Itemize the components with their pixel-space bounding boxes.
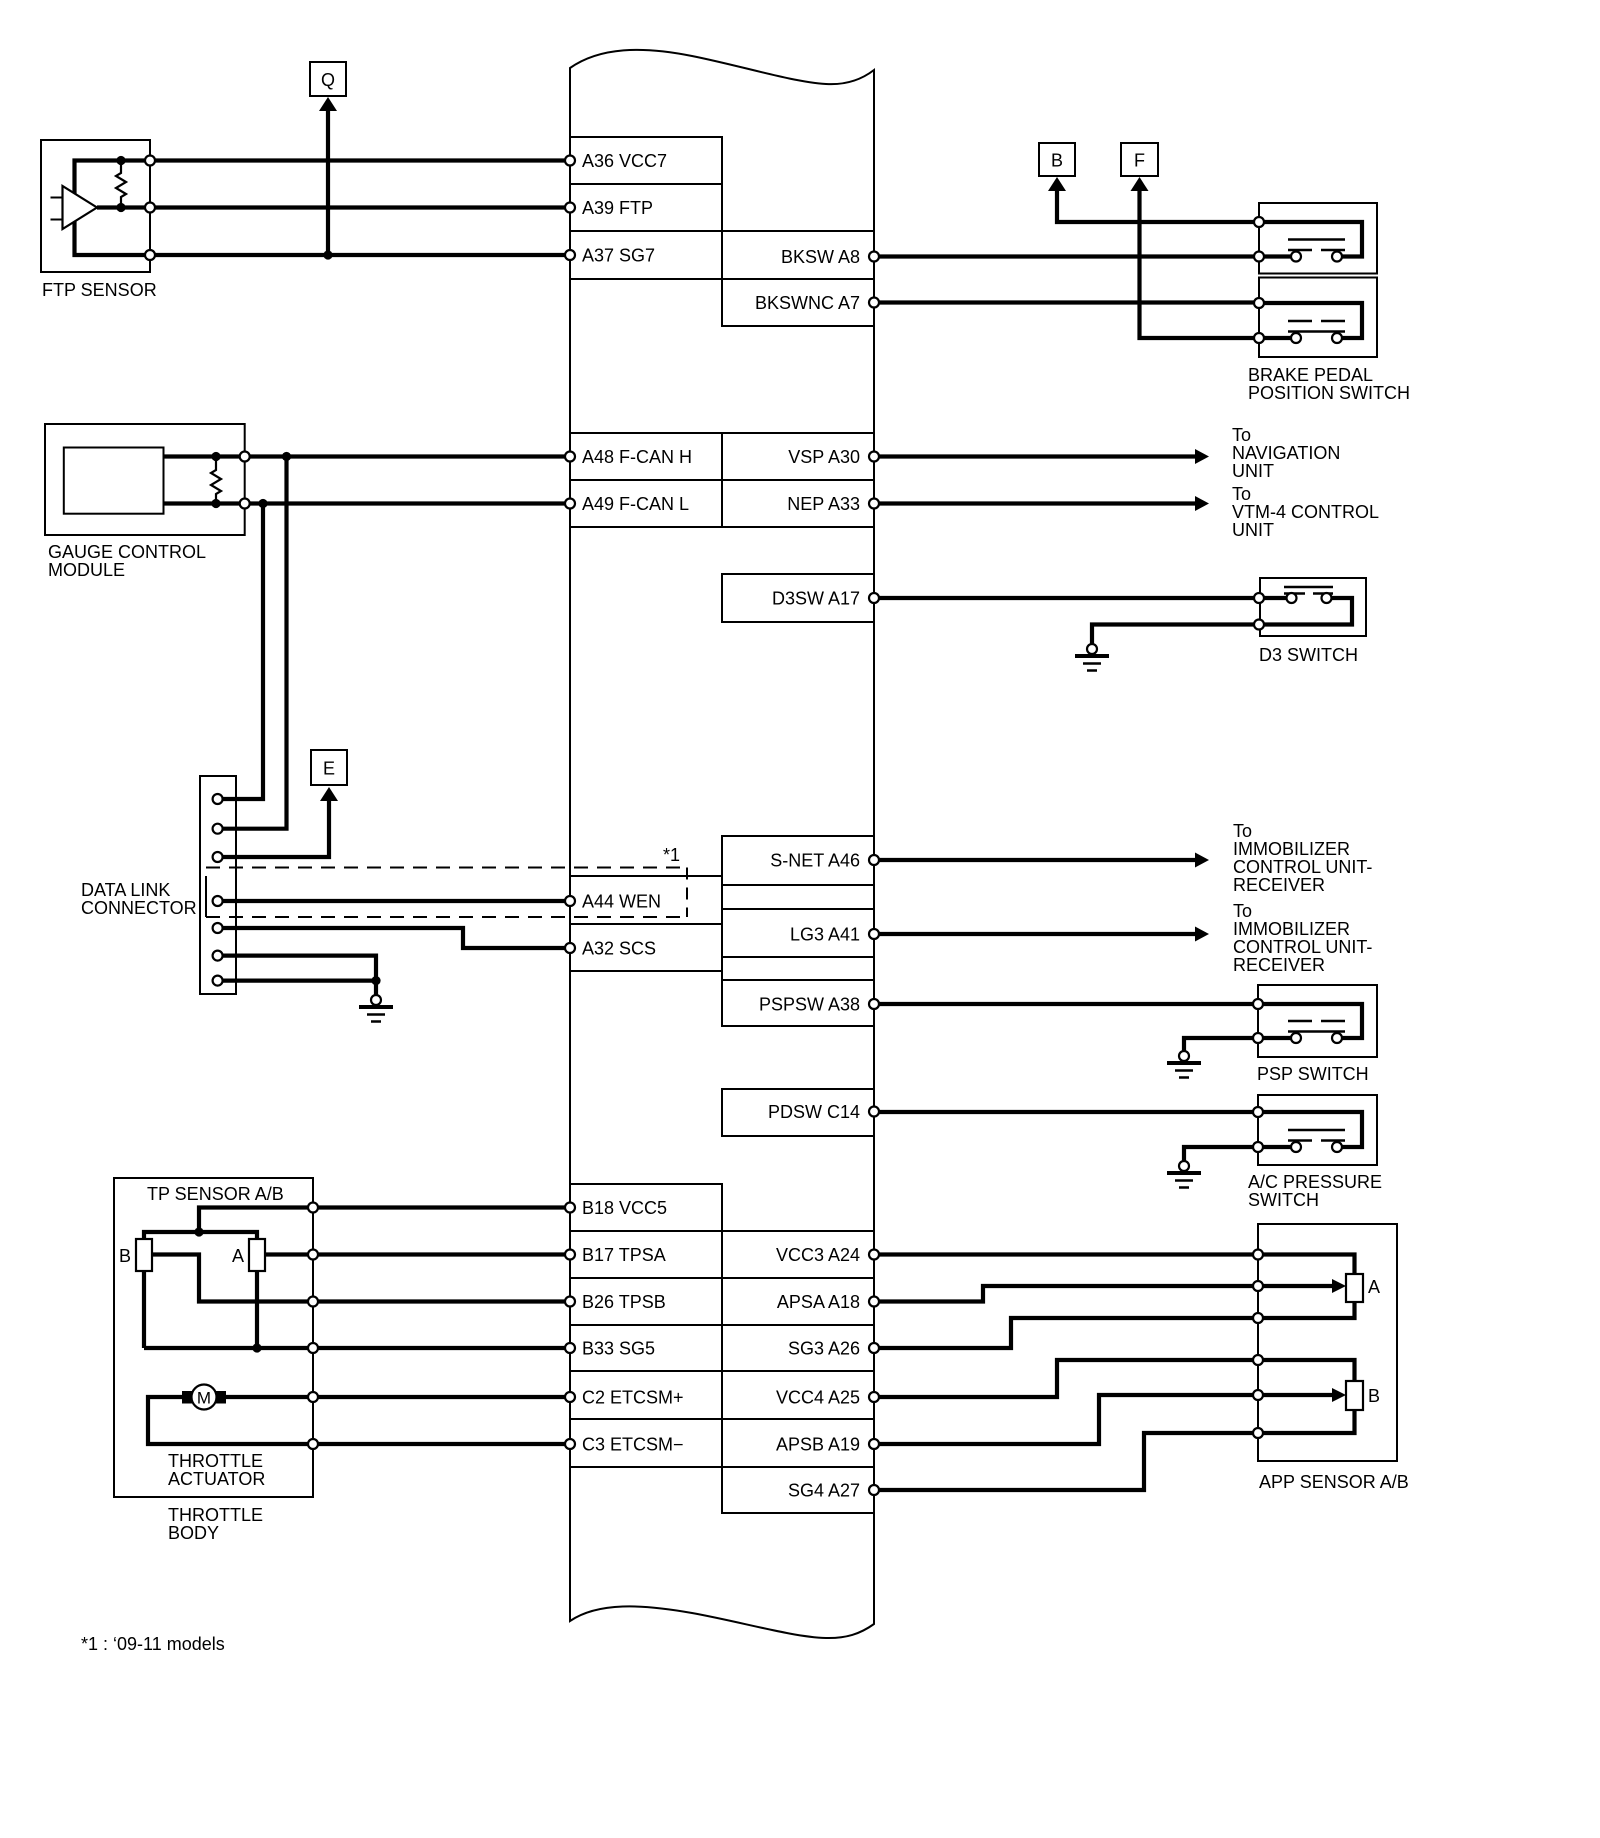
arrowhead to immobilizer control unit-receiver (S-NET) — [1195, 853, 1209, 868]
svg-text:RECEIVER: RECEIVER — [1233, 955, 1325, 975]
svg-text:PDSW C14: PDSW C14 — [768, 1102, 860, 1122]
wire PDSW C14 to A/C pressure switch — [874, 1110, 1258, 1114]
ECM pin box VSP A30 — [722, 433, 874, 480]
svg-text:B17 TPSA: B17 TPSA — [582, 1245, 666, 1265]
APP sensor element A — [1346, 1274, 1363, 1302]
svg-text:A: A — [1368, 1277, 1380, 1297]
ECM pin box NEP A33 — [722, 480, 874, 527]
svg-text:Q: Q — [321, 70, 335, 90]
ECM pin box spacer — [722, 957, 874, 980]
svg-text:A: A — [232, 1246, 244, 1266]
arrowhead to B — [1048, 177, 1066, 191]
svg-text:ACTUATOR: ACTUATOR — [168, 1469, 265, 1489]
PSP switch — [1253, 985, 1377, 1057]
svg-text:DATA LINK: DATA LINK — [81, 880, 170, 900]
svg-text:VCC4 A25: VCC4 A25 — [776, 1388, 860, 1408]
label GAUGE CONTROL MODULE — [48, 542, 206, 580]
svg-text:PSP SWITCH: PSP SWITCH — [1257, 1064, 1369, 1084]
TP sensor element B — [136, 1239, 152, 1271]
footnote *1 : '09-11 models — [81, 1634, 225, 1654]
label A (APP sensor) — [1368, 1277, 1380, 1297]
ECM pin box A44 WEN — [570, 876, 722, 924]
wire F-CAN H branch to data link connector pin 2 — [218, 457, 287, 829]
svg-text:A44 WEN: A44 WEN — [582, 892, 661, 912]
svg-text:UNIT: UNIT — [1232, 461, 1274, 481]
wire data link connector pin 7 to ground — [218, 981, 376, 996]
gauge control module outer box — [45, 424, 245, 535]
wire VSP A30 to navigation unit — [874, 454, 1196, 458]
ECM right pin circles — [869, 252, 879, 1496]
arrowhead to VTM-4 control unit — [1195, 496, 1209, 511]
label FTP SENSOR — [42, 280, 157, 300]
svg-text:VTM-4 CONTROL: VTM-4 CONTROL — [1232, 502, 1379, 522]
ECM pin box BKSW A8 — [722, 231, 874, 279]
svg-text:POSITION SWITCH: POSITION SWITCH — [1248, 383, 1410, 403]
ECM pin box B33 SG5 — [570, 1325, 722, 1371]
label APP SENSOR A/B — [1259, 1472, 1409, 1492]
svg-text:C3 ETCSM−: C3 ETCSM− — [582, 1435, 684, 1455]
wire PSPSW A38 to PSP switch — [874, 1002, 1258, 1006]
gauge control module internal wires — [164, 457, 245, 504]
wire B18 VCC5 to TP sensor — [199, 1208, 570, 1233]
data link connector box — [200, 776, 236, 994]
TP sensor element A — [249, 1239, 265, 1271]
label *1 — [663, 845, 680, 865]
svg-text:A32 SCS: A32 SCS — [582, 939, 656, 959]
label PSP SWITCH — [1257, 1064, 1369, 1084]
svg-text:B18 VCC5: B18 VCC5 — [582, 1198, 667, 1218]
arrowhead to E — [320, 787, 338, 801]
ECM pin box S-NET A46 — [722, 836, 874, 885]
junction dot Q wire on SG7 — [323, 250, 332, 259]
svg-text:CONNECTOR: CONNECTOR — [81, 898, 197, 918]
APP sensor pin circles — [1253, 1250, 1263, 1439]
label B (APP sensor) — [1368, 1386, 1380, 1406]
ECM left pin circles — [565, 156, 575, 1450]
wire LG3 A41 to immobilizer control unit-receiver — [874, 932, 1196, 936]
svg-text:S-NET A46: S-NET A46 — [770, 851, 860, 871]
throttle body box — [114, 1178, 313, 1497]
arrowhead to F — [1131, 177, 1149, 191]
svg-text:F: F — [1134, 151, 1145, 171]
svg-text:B: B — [119, 1246, 131, 1266]
ECM pin box A32 SCS — [570, 924, 722, 971]
svg-text:UNIT: UNIT — [1232, 520, 1274, 540]
svg-text:A39 FTP: A39 FTP — [582, 198, 653, 218]
ground symbol below data link connector — [359, 995, 393, 1022]
label THROTTLE BODY — [168, 1505, 263, 1543]
wire A48 F-CAN H to gauge control module — [245, 454, 570, 458]
ECM pin box spacer — [722, 885, 874, 909]
svg-text:APSB A19: APSB A19 — [776, 1435, 860, 1455]
label A/C PRESSURE SWITCH — [1248, 1172, 1382, 1210]
wire B17 TPSA to TP sensor A wiper — [265, 1252, 570, 1256]
connector B box — [1039, 143, 1075, 176]
svg-text:IMMOBILIZER: IMMOBILIZER — [1233, 839, 1350, 859]
ground symbol below D3 switch — [1075, 644, 1109, 671]
label To VTM-4 CONTROL UNIT — [1232, 484, 1379, 540]
svg-text:BKSWNC A7: BKSWNC A7 — [755, 293, 860, 313]
FTP sensor amplifier triangle — [51, 186, 98, 229]
ECM pin box VCC3 A24 — [722, 1231, 874, 1278]
wire A37 SG7 to FTP sensor — [150, 253, 570, 257]
wire D3SW A17 to D3 switch — [874, 596, 1259, 600]
ECM pin box C2 ETCSM+ — [570, 1371, 722, 1419]
svg-text:TP SENSOR A/B: TP SENSOR A/B — [147, 1184, 284, 1204]
A/C pressure switch — [1253, 1095, 1377, 1165]
wire A32 SCS to data link connector pin 5 — [218, 928, 570, 948]
label THROTTLE ACTUATOR — [168, 1451, 265, 1489]
wire A36 VCC7 to FTP sensor — [150, 158, 570, 162]
wire A/C pressure switch to ground — [1184, 1147, 1258, 1161]
label BRAKE PEDAL POSITION SWITCH — [1248, 365, 1410, 403]
ECM pin box B17 TPSA — [570, 1231, 722, 1278]
svg-text:D3SW A17: D3SW A17 — [772, 589, 860, 609]
svg-text:FTP SENSOR: FTP SENSOR — [42, 280, 157, 300]
wire S-NET A46 to immobilizer control unit-receiver — [874, 858, 1196, 862]
svg-text:VSP A30: VSP A30 — [788, 447, 860, 467]
svg-text:MODULE: MODULE — [48, 560, 125, 580]
D3 switch — [1254, 578, 1366, 636]
wire data link connector pin 6 to ground — [218, 956, 376, 981]
svg-text:C2 ETCSM+: C2 ETCSM+ — [582, 1388, 684, 1408]
ECM pin box LG3 A41 — [722, 909, 874, 957]
arrowhead to navigation unit — [1195, 449, 1209, 464]
svg-text:IMMOBILIZER: IMMOBILIZER — [1233, 919, 1350, 939]
svg-text:A49 F-CAN L: A49 F-CAN L — [582, 494, 689, 514]
brake pedal position switch lower (BKSWNC) switch — [1254, 278, 1377, 358]
svg-text:VCC3 A24: VCC3 A24 — [776, 1245, 860, 1265]
wire F-CAN L branch to data link connector pin 1 — [218, 504, 263, 800]
svg-text:B: B — [1368, 1386, 1380, 1406]
svg-text:SWITCH: SWITCH — [1248, 1190, 1319, 1210]
wire SG4 A27 to APP sensor B — [874, 1410, 1355, 1490]
APP sensor element B — [1346, 1381, 1363, 1410]
junction dot F-CAN L branch — [258, 499, 267, 508]
arrowhead to immobilizer control unit-receiver (LG3) — [1195, 927, 1209, 942]
data link connector pin circles — [213, 794, 223, 986]
svg-text:E: E — [323, 759, 335, 779]
ECM pin box A37 SG7 — [570, 231, 722, 279]
ECM engine control module body outline — [570, 50, 874, 1638]
ECM pin box PDSW C14 — [722, 1089, 874, 1136]
connector Q box — [310, 62, 346, 96]
wire VCC4 A25 to APP sensor B — [874, 1360, 1355, 1397]
svg-text:To: To — [1233, 821, 1252, 841]
junction dot TP sensor supply — [194, 1227, 203, 1236]
ECM pin box PSPSW A38 — [722, 980, 874, 1026]
wire D3 switch to ground — [1092, 625, 1259, 645]
svg-text:LG3 A41: LG3 A41 — [790, 925, 860, 945]
wire BKSWNC A7 to brake pedal position switch — [874, 300, 1259, 304]
wire Q connector to SG7 — [326, 111, 330, 255]
throttle actuator motor — [182, 1385, 226, 1410]
svg-text:APP SENSOR A/B: APP SENSOR A/B — [1259, 1472, 1409, 1492]
wire A44 WEN to data link connector pin 4 — [218, 899, 570, 903]
junction dot DLC ground junction — [371, 976, 380, 985]
ECM pin box B26 TPSB — [570, 1278, 722, 1325]
svg-text:NEP A33: NEP A33 — [787, 494, 860, 514]
wire C2 ETCSM+ to throttle actuator motor — [222, 1395, 570, 1399]
ECM pin box D3SW A17 — [722, 574, 874, 622]
svg-text:To: To — [1233, 901, 1252, 921]
arrowhead APP sensor B wiper — [1332, 1388, 1346, 1402]
svg-text:To: To — [1232, 484, 1251, 504]
wire APSB A19 to APP sensor B wiper — [874, 1395, 1332, 1444]
wire F connector to brake switch — [1140, 191, 1260, 338]
svg-text:PSPSW A38: PSPSW A38 — [759, 995, 860, 1015]
label To NAVIGATION UNIT — [1232, 425, 1340, 481]
FTP sensor internal wiring — [75, 161, 151, 256]
resistor in gauge control module — [211, 452, 221, 508]
gauge control module pin circles — [240, 452, 250, 509]
connector F box — [1121, 143, 1158, 176]
svg-text:GAUGE CONTROL: GAUGE CONTROL — [48, 542, 206, 562]
wire NEP A33 to VTM-4 control unit — [874, 501, 1196, 505]
svg-text:THROTTLE: THROTTLE — [168, 1505, 263, 1525]
svg-text:M: M — [197, 1389, 211, 1408]
wire A39 FTP to FTP sensor — [150, 205, 570, 209]
dashed optional-equipment box *1 around A44 WEN wire — [206, 868, 687, 918]
label A (TP sensor) — [232, 1246, 244, 1266]
svg-text:CONTROL UNIT-: CONTROL UNIT- — [1233, 937, 1372, 957]
wire A49 F-CAN L to gauge control module — [245, 501, 570, 505]
arrowhead APP sensor A wiper — [1332, 1279, 1346, 1293]
svg-text:A48 F-CAN H: A48 F-CAN H — [582, 447, 692, 467]
ECM pin box VCC4 A25 — [722, 1371, 874, 1419]
resistor in FTP sensor — [116, 156, 126, 212]
svg-text:B33 SG5: B33 SG5 — [582, 1339, 655, 1359]
svg-text:*1 : ‘09-11 models: *1 : ‘09-11 models — [81, 1634, 225, 1654]
ECM pin box SG3 A26 — [722, 1325, 874, 1371]
FTP sensor pin circles — [145, 156, 155, 261]
junction dot F-CAN H branch — [282, 452, 291, 461]
wire VCC3 A24 to APP sensor A — [874, 1255, 1355, 1275]
svg-text:A36 VCC7: A36 VCC7 — [582, 151, 667, 171]
wire C3 ETCSM- to throttle actuator motor — [148, 1397, 570, 1444]
wire TP sensor A element to ground rail — [255, 1271, 259, 1348]
svg-text:BODY: BODY — [168, 1523, 219, 1543]
wire data link connector pin 3 to E connector — [218, 800, 329, 857]
svg-text:SG3 A26: SG3 A26 — [788, 1339, 860, 1359]
ECM pin box C3 ETCSM- — [570, 1419, 722, 1467]
wire SG3 A26 to APP sensor A — [874, 1302, 1355, 1348]
arrowhead to Q — [319, 97, 337, 111]
svg-text:NAVIGATION: NAVIGATION — [1232, 443, 1340, 463]
svg-text:APSA A18: APSA A18 — [777, 1292, 860, 1312]
ECM pin box BKSWNC A7 — [722, 279, 874, 326]
svg-text:D3 SWITCH: D3 SWITCH — [1259, 645, 1358, 665]
ECM pin box A48 F-CAN H — [570, 433, 722, 480]
svg-text:CONTROL UNIT-: CONTROL UNIT- — [1233, 857, 1372, 877]
APP sensor box — [1258, 1224, 1397, 1461]
ECM pin box B18 VCC5 — [570, 1184, 722, 1231]
ECM pin box SG4 A27 — [722, 1467, 874, 1513]
wire B26 TPSB to TP sensor B wiper — [152, 1255, 570, 1302]
svg-text:B26 TPSB: B26 TPSB — [582, 1292, 666, 1312]
label D3 SWITCH — [1259, 645, 1358, 665]
gauge control module inner box — [64, 448, 164, 514]
label To IMMOBILIZER CONTROL UNIT-RECEIVER (S-NET) — [1233, 821, 1372, 895]
FTP sensor box — [41, 140, 150, 272]
wire TP sensor supply rail — [144, 1232, 257, 1239]
ECM pin box APSA A18 — [722, 1278, 874, 1325]
wire B connector to brake switch — [1057, 191, 1259, 222]
wire APSA A18 to APP sensor A wiper — [874, 1286, 1332, 1302]
svg-text:*1: *1 — [663, 845, 680, 865]
wire B33 SG5 to TP sensor ground rail — [144, 1346, 570, 1350]
junction dot TP sensor ground rail — [252, 1343, 261, 1352]
svg-text:B: B — [1051, 151, 1063, 171]
svg-text:A/C PRESSURE: A/C PRESSURE — [1248, 1172, 1382, 1192]
wire PSP switch to ground — [1184, 1038, 1258, 1051]
label DATA LINK CONNECTOR — [81, 880, 197, 918]
svg-text:SG4 A27: SG4 A27 — [788, 1481, 860, 1501]
brake pedal position switch upper (BKSW) switch — [1254, 203, 1377, 274]
wire BKSW A8 to brake pedal position switch — [874, 254, 1259, 258]
ECM pin box A49 F-CAN L — [570, 480, 722, 527]
ECM pin box APSB A19 — [722, 1419, 874, 1467]
svg-text:To: To — [1232, 425, 1251, 445]
label B (TP sensor) — [119, 1246, 131, 1266]
label TP SENSOR A/B — [147, 1184, 284, 1204]
svg-text:BKSW A8: BKSW A8 — [781, 247, 860, 267]
ground symbol below PSP switch — [1167, 1051, 1201, 1078]
svg-text:THROTTLE: THROTTLE — [168, 1451, 263, 1471]
label To IMMOBILIZER CONTROL UNIT-RECEIVER (LG3) — [1233, 901, 1372, 975]
connector E box — [311, 750, 347, 785]
svg-text:A37 SG7: A37 SG7 — [582, 246, 655, 266]
svg-text:BRAKE PEDAL: BRAKE PEDAL — [1248, 365, 1373, 385]
ground symbol below A/C pressure switch — [1167, 1161, 1201, 1188]
wire TP sensor B element to ground rail — [142, 1271, 146, 1348]
throttle body pin circles — [308, 1203, 318, 1450]
ECM pin box A39 FTP — [570, 184, 722, 231]
ECM pin box A36 VCC7 — [570, 137, 722, 184]
svg-text:RECEIVER: RECEIVER — [1233, 875, 1325, 895]
